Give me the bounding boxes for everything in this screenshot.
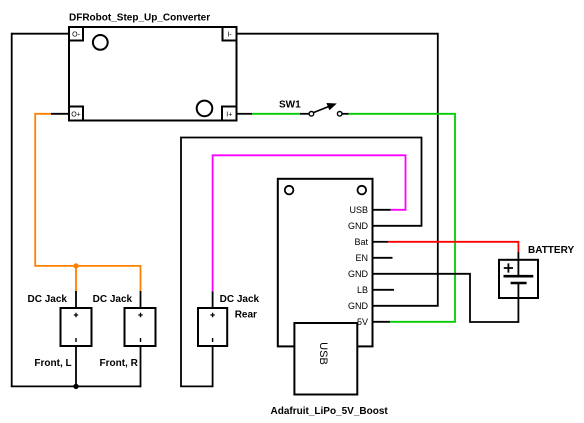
svg-text:Bat: Bat xyxy=(354,237,368,247)
pin I+ of U1 xyxy=(222,107,237,121)
svg-text:GND: GND xyxy=(348,269,369,279)
wire GND pin 2 to battery minus (black) xyxy=(374,274,519,322)
svg-text:O-: O- xyxy=(72,32,80,39)
svg-text:USB: USB xyxy=(317,342,329,365)
converter U1 DFRobot_Step_Up_Converter body xyxy=(69,27,237,121)
pin O- of U1 xyxy=(69,27,83,41)
junction front bottom rail xyxy=(73,384,78,389)
wire O- to left rail (black) xyxy=(12,33,68,35)
wire battery plus stub (black) xyxy=(517,252,519,259)
svg-text:GND: GND xyxy=(348,221,369,231)
wire front-R jack minus stub (black) xyxy=(140,347,142,387)
mounting hole U2 left xyxy=(285,186,294,195)
wire EN pin stub (black) xyxy=(374,257,393,259)
svg-text:USB: USB xyxy=(349,205,368,215)
svg-text:DC Jack: DC Jack xyxy=(28,294,68,305)
wire LB pin stub (black) xyxy=(374,289,395,291)
wire O+ pin stub (black) xyxy=(51,113,68,115)
wire front-L jack minus stub (black) xyxy=(75,347,77,386)
svg-text:5V: 5V xyxy=(357,317,368,327)
mounting hole U2 right xyxy=(358,186,367,195)
wire rear jack plus stub (black) xyxy=(212,291,214,307)
svg-text:LB: LB xyxy=(357,285,368,295)
wire Bat to battery plus (red) xyxy=(388,242,518,252)
wire left rail down (black) xyxy=(11,33,13,387)
wire 5V pin stub (black) xyxy=(374,321,391,323)
svg-text:I+: I+ xyxy=(226,112,232,119)
wire SW1 to 5V pin (green) xyxy=(349,114,456,322)
svg-text:SW1: SW1 xyxy=(279,100,301,111)
wire I+ to SW1 (green) xyxy=(252,113,300,115)
wire USB pin to rear jack (magenta) xyxy=(213,155,406,291)
mounting hole U1 bottom-right xyxy=(197,101,213,117)
mounting hole U1 top-left xyxy=(93,35,108,50)
pin O+ of U1 xyxy=(69,107,83,121)
svg-text:DFRobot_Step_Up_Converter: DFRobot_Step_Up_Converter xyxy=(69,13,210,24)
svg-text:EN: EN xyxy=(355,253,368,263)
usb connector of U2 xyxy=(294,323,357,395)
svg-text:I-: I- xyxy=(227,32,232,39)
wire SW1 throw stub (black) xyxy=(342,113,349,115)
wire front bottom rail (black) xyxy=(11,385,141,387)
dc jack J3 rear xyxy=(198,308,227,346)
svg-text:GND: GND xyxy=(348,301,369,311)
svg-text:BATTERY: BATTERY xyxy=(528,245,574,256)
wire GND pin 1 to rear jack minus (black loop) xyxy=(181,138,422,387)
junction orange at front-L xyxy=(73,263,78,268)
svg-text:Adafruit_LiPo_5V_Boost: Adafruit_LiPo_5V_Boost xyxy=(271,406,389,417)
svg-text:O+: O+ xyxy=(71,112,81,119)
wire I- to GND pin 3 (black) xyxy=(238,34,438,306)
wire Bat pin stub (black) xyxy=(374,241,389,243)
dc jack J2 front right xyxy=(125,308,156,346)
svg-text:Rear: Rear xyxy=(235,310,257,321)
wire SW1 pole stub (black) xyxy=(300,113,309,115)
svg-text:Front, R: Front, R xyxy=(100,358,139,369)
switch SW1 xyxy=(309,103,342,116)
wire front-L jack plus stub (black) xyxy=(75,291,77,307)
battery BT1 xyxy=(499,259,538,299)
wire USB pin stub (black) xyxy=(374,209,391,211)
pin I- of U1 xyxy=(223,27,237,41)
svg-text:DC Jack: DC Jack xyxy=(220,294,260,305)
wire front-R jack plus stub (black) xyxy=(140,291,142,307)
wire orange drop to front-L jack xyxy=(75,266,77,291)
wire I+ pin stub (black) xyxy=(238,113,253,115)
dc jack J1 front left xyxy=(61,308,92,346)
svg-text:Front, L: Front, L xyxy=(34,358,71,369)
svg-text:DC Jack: DC Jack xyxy=(93,294,133,305)
wire O+ to front jacks (orange) xyxy=(35,114,140,291)
board U2 Adafruit_LiPo_5V_Boost body xyxy=(278,179,373,347)
